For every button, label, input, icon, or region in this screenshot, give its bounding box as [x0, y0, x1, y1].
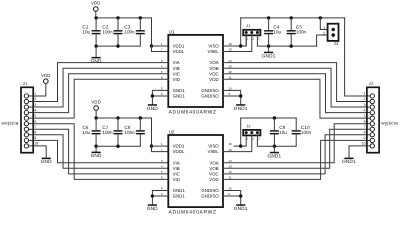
svg-text:2: 2 — [364, 97, 366, 101]
svg-text:VSEL: VSEL — [207, 49, 219, 54]
junction U2 GND1 pins — [151, 194, 154, 197]
svg-text:12: 12 — [228, 170, 232, 174]
capacitor C1 — [92, 18, 101, 46]
power symbol VDD at x=95.8 — [91, 1, 101, 12]
wire U1 pin7 VDDL — [152, 46, 169, 52]
svg-text:VISO: VISO — [208, 144, 219, 149]
svg-text:3: 3 — [364, 103, 366, 107]
wire net VISO riser — [240, 18, 242, 46]
svg-text:Z1: Z1 — [23, 82, 27, 86]
svg-text:VIB: VIB — [173, 66, 180, 71]
ground symbol GND at x=152.4 (gnd-u1-left) — [147, 104, 158, 111]
svg-text:10u: 10u — [82, 130, 90, 135]
svg-text:4: 4 — [364, 108, 366, 112]
capacitor C9 — [270, 118, 279, 146]
wire Z1 pin1 to VDD — [33, 84, 46, 96]
jumper J2 (VSEL select) — [243, 130, 260, 136]
svg-text:5: 5 — [161, 170, 163, 174]
connector Z3 (isolated power output, 2-pin) — [328, 24, 339, 41]
wire Z1 pin9 to U2 VIA — [33, 140, 168, 162]
junction U1 GND1 pins — [151, 94, 154, 97]
svg-text:VDD1: VDD1 — [173, 144, 185, 149]
svg-text:GND1: GND1 — [173, 188, 186, 193]
svg-text:VOC: VOC — [209, 71, 219, 76]
wire net GND1 rail bottom (J2 pin3, C9, C10) — [257, 145, 296, 147]
wire Z1 pin6 to U2 VID — [33, 124, 168, 180]
svg-text:100n: 100n — [124, 130, 135, 135]
svg-text:1: 1 — [247, 138, 249, 141]
wire net GND rail (C6-C8 bottoms) — [96, 145, 140, 147]
junction GND rail at C2 — [116, 44, 119, 47]
svg-text:4: 4 — [34, 108, 36, 112]
svg-text:VOD: VOD — [209, 177, 219, 182]
svg-text:VOB: VOB — [209, 166, 218, 171]
svg-text:J1: J1 — [246, 24, 250, 28]
svg-text:2: 2 — [253, 138, 255, 141]
connector Z1 (inputs, 10-pin) — [21, 87, 33, 152]
svg-text:GND1: GND1 — [234, 106, 248, 111]
svg-text:U1: U1 — [169, 29, 175, 34]
svg-text:100n: 100n — [124, 30, 135, 35]
svg-text:VDD1: VDD1 — [173, 44, 185, 49]
svg-text:10u: 10u — [273, 30, 281, 35]
svg-text:U2: U2 — [169, 129, 175, 134]
wire J1 pin3 to GND1 rail — [256, 35, 258, 46]
junction U1 VDD1/VDDL tie — [150, 44, 153, 47]
junction U2 VDD1/VDDL tie — [150, 144, 153, 147]
svg-text:1: 1 — [34, 92, 36, 96]
svg-text:1: 1 — [247, 38, 249, 41]
ground symbol GND1 at x=268.6 (gnd1-top) — [262, 52, 276, 59]
svg-text:GND: GND — [147, 206, 158, 211]
svg-text:16: 16 — [228, 142, 232, 146]
wire net VISO2 riser — [240, 118, 242, 146]
wire U1 GND1 pins 8,2 to ground — [152, 90, 168, 104]
svg-text:GNDISO: GNDISO — [201, 188, 219, 193]
svg-text:GND1: GND1 — [267, 153, 281, 158]
svg-text:8: 8 — [34, 131, 36, 135]
capacitor C10 — [292, 118, 301, 146]
svg-text:5: 5 — [364, 114, 366, 118]
wire U1 VOD to Z2 pin5 — [223, 79, 367, 118]
svg-text:VOB: VOB — [209, 66, 218, 71]
wire U2 GNDISO pin 9 — [223, 195, 241, 197]
jumper J1 (VSEL select) — [243, 30, 260, 36]
ground symbol GND1 at x=349 (gnd1-z2) — [342, 158, 356, 165]
junction U2 GNDISO pins — [239, 194, 242, 197]
wire J2 pin3 to GND1 rail — [256, 135, 258, 146]
svg-text:VIC: VIC — [173, 171, 180, 176]
svg-text:GNDISO: GNDISO — [201, 194, 219, 199]
ground symbol GND1 at x=240.7 (gnd1-u1-right) — [234, 104, 248, 111]
capacitor C8 — [136, 118, 145, 146]
ground symbol GND at x=96.1 (gnd-botleft) — [91, 152, 102, 159]
wire J1 pin1 to VISO net — [245, 35, 247, 46]
junction U1 GNDISO pins — [239, 94, 242, 97]
svg-text:7: 7 — [364, 125, 366, 129]
wire Z1 pin3 to U1 VIB — [33, 68, 168, 107]
wire U2 GND1 pins 8,2 to ground — [152, 191, 168, 205]
wire U1 GND1 pin 2 — [152, 95, 168, 97]
svg-text:GND: GND — [41, 159, 52, 164]
svg-text:VOD: VOD — [209, 77, 219, 82]
svg-text:100n: 100n — [102, 30, 113, 35]
svg-text:VIC: VIC — [173, 71, 180, 76]
svg-text:GND1: GND1 — [262, 53, 276, 58]
wire U2 GND1 pin 2 — [152, 195, 168, 197]
wire Z1 pin5 to U1 VID — [33, 79, 168, 118]
wire U2 pin16 VISO to J2 — [234, 135, 246, 146]
svg-text:GND1: GND1 — [342, 159, 356, 164]
svg-text:3: 3 — [258, 138, 260, 141]
svg-text:10u: 10u — [279, 130, 287, 135]
svg-text:GND1: GND1 — [173, 88, 186, 93]
wire Z1 pin10 to GND — [33, 146, 46, 158]
wire VDD symbol to U2 rail — [95, 110, 97, 118]
svg-text:GND: GND — [147, 106, 158, 111]
svg-text:13: 13 — [228, 164, 232, 168]
junction GND1 rail at C5 — [290, 44, 293, 47]
ground symbol GND at x=152.4 (gnd-u2-left) — [147, 204, 158, 211]
capacitor C5 — [287, 18, 296, 46]
junction GND1 rail at C9 — [273, 145, 276, 148]
svg-text:3: 3 — [258, 38, 260, 41]
svg-text:J2: J2 — [246, 124, 250, 128]
wire U2 pin1 VDD1 — [152, 145, 169, 147]
wire U1 pin16 VISO to rail riser — [223, 35, 246, 46]
wire U2 GNDISO pins 15,9 to isolated ground — [223, 191, 241, 205]
wire U1 VOC to Z2 pin4 — [223, 74, 367, 113]
junction VISO2 wire/riser — [239, 144, 242, 147]
ground symbol GND at x=46.2 (gnd-z1) — [41, 158, 52, 165]
wire Z1 pin8 to U2 VIB — [33, 135, 168, 169]
svg-text:6: 6 — [364, 119, 366, 123]
wire U2 VOB to Z2 pin7 — [223, 129, 367, 168]
connector Z2 (outputs, 10-pin) — [367, 87, 379, 152]
svg-text:VDD: VDD — [91, 1, 101, 6]
wire Z2 pin10 to GND1 — [349, 146, 367, 158]
wire Z1 pin2 to U1 VIA — [33, 63, 168, 102]
power symbol VDD at x=45.8 — [41, 73, 51, 84]
wire GND stub below C6 — [95, 146, 97, 151]
svg-text:9: 9 — [364, 136, 366, 140]
junction VISO wire/riser — [239, 44, 242, 47]
svg-text:2: 2 — [323, 32, 325, 36]
wire U2 VOD to Z2 pin9 — [223, 140, 367, 179]
wire U1 VOA to Z2 pin2 — [223, 63, 367, 102]
svg-text:100n: 100n — [301, 130, 312, 135]
svg-text:3: 3 — [34, 103, 36, 107]
junction GND1 rail at C4 — [267, 44, 270, 47]
svg-text:9: 9 — [34, 136, 36, 140]
capacitor C3 — [136, 18, 145, 46]
svg-text:Z2: Z2 — [369, 82, 373, 86]
svg-text:1: 1 — [323, 26, 325, 30]
junction GND rail at C1/GND stub — [94, 44, 97, 47]
capacitor C7 — [114, 118, 123, 146]
svg-text:1: 1 — [161, 142, 163, 146]
svg-text:GNDISO: GNDISO — [201, 94, 219, 99]
wire VDD symbol to top rail — [95, 11, 97, 18]
ground symbol GND1 at x=274.4 (gnd1-bot) — [267, 152, 281, 159]
wire J1 pin2 to U1 VSEL pin10 — [223, 35, 252, 51]
svg-text:VIA: VIA — [173, 160, 180, 165]
svg-text:wejścia: wejścia — [2, 121, 19, 126]
wire J2 pin2 to U2 VSEL pin10 — [223, 135, 252, 151]
svg-text:GND: GND — [91, 153, 102, 158]
junction VISO rail at C4 — [267, 16, 270, 19]
junction VISO2 rail at C9 — [273, 116, 276, 119]
wire VISO rail drop to Z3 pin1 — [320, 18, 327, 30]
wire net GND bottom rail (C1-C3 bottoms) — [96, 45, 140, 47]
svg-text:10: 10 — [362, 142, 366, 146]
svg-text:wyjścia: wyjścia — [381, 121, 398, 126]
junction VISO rail at C5 — [290, 16, 293, 19]
junction VISO rail at Z3 drop — [319, 16, 322, 19]
junction VDD rail at C3 — [139, 16, 142, 19]
svg-text:VOC: VOC — [209, 171, 219, 176]
svg-text:VDDL: VDDL — [173, 149, 185, 154]
svg-text:7: 7 — [34, 125, 36, 129]
wire GND1 stub below C9 — [273, 146, 275, 152]
svg-text:ADUM6400ARWZ: ADUM6400ARWZ — [169, 109, 217, 115]
wire net VDD rail (C6-C8 tops to U2 supply riser) — [96, 118, 151, 146]
svg-text:100n: 100n — [296, 30, 307, 35]
junction VDD rail at C1 — [94, 16, 97, 19]
svg-text:5: 5 — [34, 114, 36, 118]
wire U1 GNDISO pins 15,9 to isolated ground — [223, 90, 241, 104]
junction U2 VDD rail at C6 — [94, 116, 97, 119]
ground symbol GND1 at x=240.7 (gnd1-u2-right) — [234, 204, 248, 211]
wire net VISO2 rail — [241, 117, 297, 119]
svg-text:VDD: VDD — [91, 100, 101, 105]
svg-text:2: 2 — [161, 192, 163, 196]
ground symbol GND at x=96.1 (gnd-topleft) — [91, 57, 102, 64]
wire Z1 pin4 to U1 VIC — [33, 74, 168, 113]
wire U1 pin1 VDD1 — [152, 45, 169, 47]
svg-text:2: 2 — [34, 97, 36, 101]
op-amp U2 ADuM6400ARWZ isolator (IC body) — [168, 135, 223, 207]
wire net VDD top rail (C1-C3 tops to U1 supply riser) — [96, 18, 152, 46]
wire VISO rail long drop to Z2 pin1 — [345, 18, 367, 96]
op-amp U1 ADuM6400ARWZ isolator (IC body) — [168, 35, 223, 107]
junction GND rail at C7 — [116, 145, 119, 148]
svg-text:10u: 10u — [82, 30, 90, 35]
svg-text:VISO: VISO — [208, 44, 219, 49]
svg-text:VIA: VIA — [173, 60, 180, 65]
svg-text:9: 9 — [228, 192, 230, 196]
junction U2 VDD rail at C8 — [139, 116, 142, 119]
svg-text:6: 6 — [34, 119, 36, 123]
wire net VISO top rail — [241, 17, 345, 19]
svg-text:100n: 100n — [102, 130, 113, 135]
wire U2 VOA to Z2 pin6 — [223, 124, 367, 163]
capacitor C4 — [264, 18, 273, 46]
svg-text:VID: VID — [173, 177, 180, 182]
svg-text:8: 8 — [364, 131, 366, 135]
svg-text:GND1: GND1 — [173, 194, 186, 199]
junction U2 VDD rail at C7 — [116, 116, 119, 119]
junction GND rail at C6/GND stub — [94, 145, 97, 148]
svg-text:10: 10 — [34, 142, 38, 146]
power symbol VDD at x=96.1 — [91, 100, 101, 111]
svg-text:Z3: Z3 — [334, 42, 338, 46]
svg-text:GND1: GND1 — [173, 94, 186, 99]
svg-text:VID: VID — [173, 77, 180, 82]
wire U1 VOB to Z2 pin3 — [223, 68, 367, 107]
svg-text:VIB: VIB — [173, 166, 180, 171]
junction VDD rail at C2 — [116, 16, 119, 19]
capacitor C2 — [114, 18, 123, 46]
svg-text:4: 4 — [161, 164, 163, 168]
svg-text:VDD: VDD — [41, 73, 51, 78]
wire GND1 stub below C4 — [268, 46, 270, 52]
capacitor C6 — [92, 118, 101, 146]
wire U2 VOC to Z2 pin8 — [223, 135, 367, 174]
wire net GND1 rail (J1 pin3, C4, C5, Z3 pin2) — [257, 45, 316, 47]
svg-text:2: 2 — [253, 38, 255, 41]
svg-text:VDDL: VDDL — [173, 49, 185, 54]
wire GND stub below C1 — [95, 46, 97, 57]
wire Z1 pin7 to U2 VIC — [33, 129, 168, 174]
wire Z3 pin2 to GND1 rail — [317, 35, 328, 46]
svg-text:GND1: GND1 — [234, 206, 248, 211]
svg-text:ADUM6400ARWZ: ADUM6400ARWZ — [169, 210, 217, 216]
svg-text:1: 1 — [364, 92, 366, 96]
svg-text:VSEL: VSEL — [207, 149, 219, 154]
svg-text:VOA: VOA — [209, 60, 218, 65]
svg-text:GNDISO: GNDISO — [201, 88, 219, 93]
wire U2 pin7 VDDL — [152, 146, 169, 152]
wire U1 GNDISO pin 9 — [223, 95, 241, 97]
svg-text:VOA: VOA — [209, 160, 218, 165]
